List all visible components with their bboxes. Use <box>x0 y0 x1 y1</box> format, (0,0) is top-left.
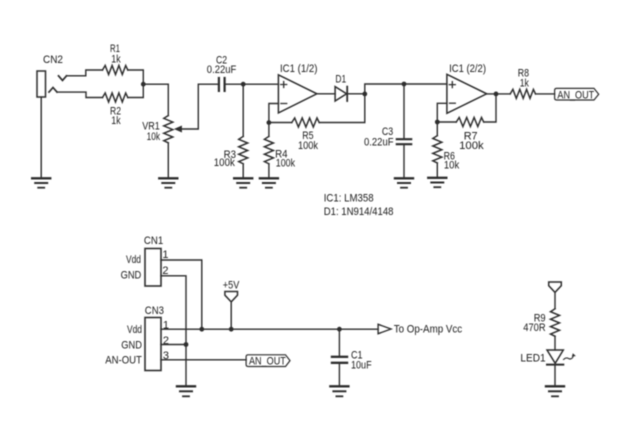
ground (CN2) <box>32 178 50 187</box>
LED LED1 <box>547 350 575 365</box>
net flag AN_OUT (input) <box>246 355 290 367</box>
connector CN2 <box>37 71 46 97</box>
VR1 wiper arrow <box>175 126 181 131</box>
wire junction to R6 <box>436 122 438 136</box>
svg-text:100k: 100k <box>298 140 318 152</box>
svg-text:1k: 1k <box>520 77 530 89</box>
resistor R3 <box>239 136 248 163</box>
wire op-amp1 output to D1 <box>317 93 335 95</box>
net arrow To Op-Amp Vcc <box>378 324 391 333</box>
wire R3 to ground <box>242 164 244 178</box>
wire VR1 wiper to C2 <box>181 84 218 129</box>
resistor R8 <box>510 89 535 98</box>
wire C3 top <box>403 84 405 138</box>
wire CN1 pin2 to GND node <box>161 276 186 345</box>
capacitor C3 <box>397 139 411 144</box>
wire VR1 bottom to ground <box>167 143 169 178</box>
wire C1 to ground <box>338 364 340 386</box>
junction op-amp2 output node <box>494 92 499 97</box>
svg-text:Vdd: Vdd <box>126 254 141 266</box>
wire feedback D1 junction down to R5 <box>319 94 365 123</box>
junction R1/R2 node <box>141 82 146 87</box>
wire R6 to ground <box>436 163 438 178</box>
net flag AN_OUT (output) <box>555 88 599 100</box>
ground (R6) <box>428 178 446 187</box>
capacitor C2 <box>219 78 225 91</box>
wire CN3 pin2 to GND node <box>161 344 186 346</box>
svg-text:To Op-Amp Vcc: To Op-Amp Vcc <box>394 323 463 335</box>
wire R7 to minus node <box>437 121 456 123</box>
svg-text:100k: 100k <box>459 140 484 152</box>
connector CN1 <box>145 249 161 287</box>
connector CN3 <box>145 318 161 371</box>
wire junction to R3 <box>242 84 244 136</box>
svg-text:100k: 100k <box>214 157 235 169</box>
resistor R6 <box>433 136 442 163</box>
ground (R3) <box>234 178 252 187</box>
wire CN3 pin1 Vdd rail <box>161 328 378 330</box>
svg-text:AN-OUT: AN-OUT <box>105 355 142 367</box>
svg-text:+5V: +5V <box>223 279 240 291</box>
svg-text:0.22uF: 0.22uF <box>364 137 394 149</box>
wire R1 to junction <box>128 70 144 84</box>
junction R6/R7 node <box>435 120 440 125</box>
junction C2/R3 node <box>241 82 246 87</box>
wire C3 to ground <box>403 145 405 178</box>
svg-text:D1: D1 <box>335 73 346 85</box>
wire R2 to junction <box>128 84 144 97</box>
svg-text:1k: 1k <box>111 115 121 127</box>
wire +5V to rail <box>230 302 232 329</box>
power +5V symbol <box>225 292 238 302</box>
wire D1 junction up to stage2 input rail <box>365 84 447 94</box>
wire CN2 pin1 to R1 <box>67 70 103 76</box>
junction GND node <box>184 342 189 347</box>
svg-text:D1: 1N914/4148: D1: 1N914/4148 <box>324 206 394 218</box>
CN2 pin 2 hook <box>49 88 57 93</box>
junction CN1 pin1 / rail <box>199 327 204 332</box>
svg-text:LED1: LED1 <box>520 352 545 364</box>
svg-text:GND: GND <box>121 339 142 351</box>
svg-text:10k: 10k <box>444 160 460 172</box>
ground (C3) <box>395 178 413 187</box>
wire D1 cathode to junction <box>347 93 365 95</box>
svg-text:2: 2 <box>162 265 168 277</box>
ground (C1) <box>330 386 348 396</box>
wire R4 to ground <box>268 164 270 178</box>
wire C2 to op-amp input <box>226 83 279 85</box>
junction +5V / rail <box>229 327 234 332</box>
wire op-amp1 minus input <box>269 104 279 123</box>
wire R8 to AN_OUT flag <box>536 93 555 95</box>
wire LED1 to ground <box>554 365 556 386</box>
svg-text:CN1: CN1 <box>144 235 163 247</box>
svg-text:CN2: CN2 <box>43 54 63 66</box>
wire op-amp2 output to R8 <box>487 93 511 95</box>
junction C3 top node <box>402 82 407 87</box>
ground (R4) <box>260 178 278 187</box>
ground (LED1) <box>546 386 564 396</box>
ground (VR1) <box>159 178 177 187</box>
svg-text:10k: 10k <box>147 131 161 143</box>
diode D1 <box>335 87 347 101</box>
wire junction to VR1 top <box>143 84 168 115</box>
wire Vdd to R9 <box>554 292 556 308</box>
svg-text:AN_OUT: AN_OUT <box>557 89 594 101</box>
resistor R5 <box>292 118 319 127</box>
svg-text:IC1: LM358: IC1: LM358 <box>324 192 374 204</box>
wire feedback output junction down to R7 <box>484 94 496 122</box>
wire CN2 pin2 to R2 <box>57 92 103 97</box>
CN2 pin 1 hook <box>59 76 67 81</box>
svg-text:1k: 1k <box>111 54 121 66</box>
svg-text:IC1 (1/2): IC1 (1/2) <box>280 63 318 75</box>
svg-text:IC1 (2/2): IC1 (2/2) <box>449 63 486 75</box>
resistor R2 <box>103 93 128 102</box>
junction C1 / rail <box>337 327 342 332</box>
svg-text:10uF: 10uF <box>351 359 372 371</box>
capacitor C1 <box>332 357 347 363</box>
wire junction to R4 <box>268 123 270 137</box>
ground (CN1/CN3 GND) <box>177 386 195 396</box>
wire R5 to minus node <box>269 122 292 124</box>
wire R9 to LED1 <box>554 336 556 350</box>
op-amp U1A IC1 (1/2) <box>278 75 317 113</box>
wire op-amp2 minus input <box>437 103 447 122</box>
wire C1 top <box>338 329 340 356</box>
resistor R7 <box>456 118 483 127</box>
power Vdd symbol (LED branch) <box>549 282 562 292</box>
svg-text:470R: 470R <box>523 322 545 334</box>
svg-text:100k: 100k <box>276 157 296 169</box>
resistor R9 <box>551 309 560 336</box>
wire CN3 pin3 to AN_OUT flag <box>161 359 246 361</box>
svg-text:GND: GND <box>121 269 142 281</box>
op-amp U1B IC1 (2/2) <box>447 74 487 113</box>
junction R4/R5 node <box>267 120 272 125</box>
wire CN2 body to ground <box>40 97 42 178</box>
svg-text:0.22uF: 0.22uF <box>207 64 237 76</box>
svg-text:Vdd: Vdd <box>127 324 142 336</box>
wire GND node to ground <box>185 345 187 387</box>
potentiometer VR1 <box>164 116 173 143</box>
wire CN1 pin1 to Vdd rail <box>161 260 202 329</box>
junction D1 output node <box>362 92 367 97</box>
svg-text:CN3: CN3 <box>145 305 164 317</box>
resistor R1 <box>103 66 128 75</box>
svg-text:AN_OUT: AN_OUT <box>249 356 286 368</box>
resistor R4 <box>264 136 273 163</box>
svg-text:1: 1 <box>162 249 168 261</box>
